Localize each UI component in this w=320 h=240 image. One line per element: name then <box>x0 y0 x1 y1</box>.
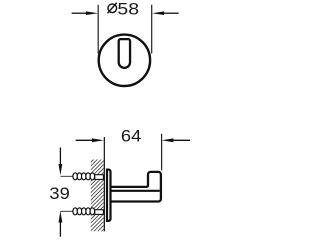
svg-text:64: 64 <box>121 127 142 146</box>
svg-text:39: 39 <box>49 184 69 203</box>
svg-text:58: 58 <box>117 0 139 18</box>
